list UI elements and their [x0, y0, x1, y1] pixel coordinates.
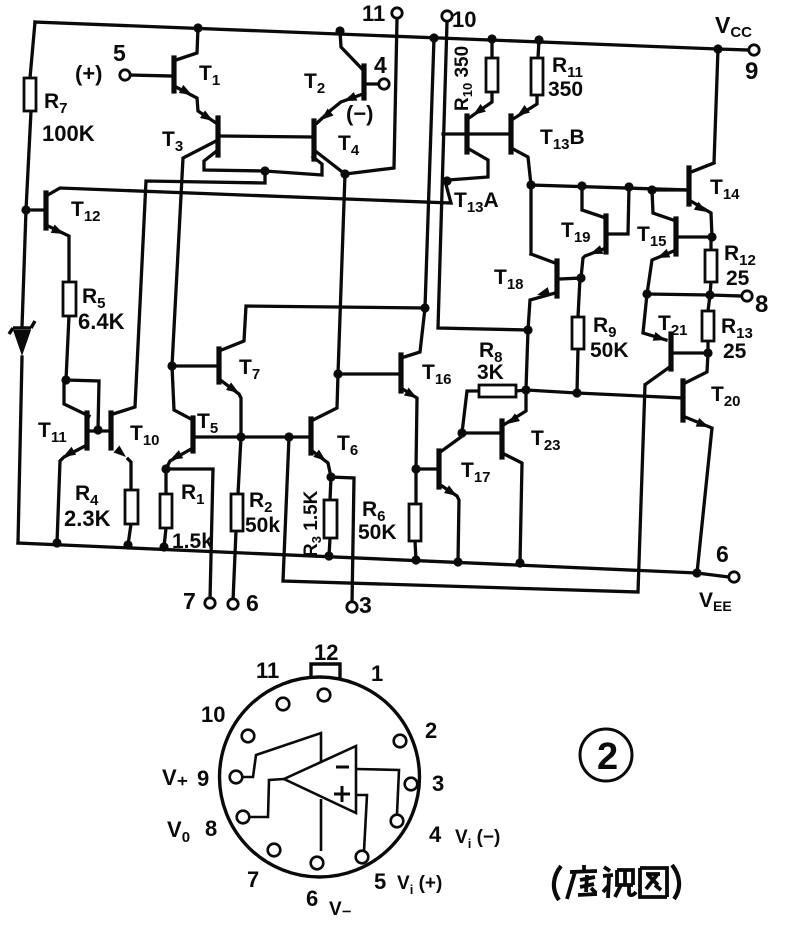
wire T17 base: [416, 467, 437, 470]
package pin circle 7: [268, 844, 281, 857]
package pin circle 4: [391, 815, 404, 828]
node VCC junction: [713, 44, 722, 53]
caption (bottom view) in Chinese, hand-drawn strokes: [554, 865, 679, 900]
svg-text:3K: 3K: [477, 361, 504, 384]
wire pin5 noninverting: [356, 795, 367, 851]
wire R2 bottom to pin 6: [233, 531, 236, 601]
wire R10 stub top: [490, 39, 493, 58]
node T2 collector rail: [335, 26, 344, 35]
package pin circle 9: [230, 771, 243, 784]
wire T23 base: [462, 431, 500, 434]
transistor T13A: [464, 116, 469, 152]
arrow T1 emitter: [179, 85, 194, 99]
arrow T23 emitter into bar: [504, 413, 519, 428]
svg-text:50k: 50k: [245, 514, 280, 537]
resistor R7: [24, 78, 36, 111]
wire T2 emitter to T4: [317, 94, 363, 123]
wire T21 emitter from pin8 node: [643, 294, 666, 340]
resistor R13: [702, 311, 714, 341]
node R13 T21 base: [703, 348, 712, 357]
svg-text:2.3K: 2.3K: [64, 506, 111, 531]
wire T5 T6 base line: [195, 435, 310, 438]
node T19 base bus: [624, 182, 633, 191]
wire T2 base from pin4: [366, 82, 379, 85]
wire R8 right stub: [516, 390, 526, 391]
wire T10 emitter to R4: [128, 459, 131, 545]
transistor T7: [216, 349, 221, 382]
hanzi shi (view): [603, 867, 636, 898]
resistor R1: [160, 494, 172, 528]
svg-text:8: 8: [205, 816, 217, 841]
wire T21 base: [673, 351, 708, 354]
node T3/T4 emitters pin11: [340, 169, 349, 178]
terminal pin 6 bottom: [228, 599, 238, 609]
package pin circle 6: [311, 857, 324, 870]
node R8 right: [521, 385, 530, 394]
terminal pin 10: [442, 11, 452, 21]
node rail T11: [52, 538, 61, 547]
svg-text:6: 6: [246, 590, 259, 616]
arrow T18 emitter: [536, 287, 551, 299]
node T15 collector bus: [647, 185, 656, 194]
wire T3 loop to center node: [204, 150, 265, 171]
transistor T19: [603, 216, 608, 252]
wire T7 collector up and over to vertical 1: [219, 306, 425, 351]
wire T5 emitter diagonal: [166, 448, 193, 469]
node T23 base T17 collector: [457, 428, 466, 437]
terminal pin 3: [347, 602, 357, 612]
node pin8 R12 R13: [705, 290, 714, 299]
wire T16 base: [338, 372, 399, 375]
wire T13A collector elbow to bias node: [448, 149, 488, 180]
wire VCC vertical to T14: [691, 49, 718, 172]
plus sign: [334, 786, 350, 802]
wire T11 emitter to rail: [57, 445, 87, 543]
package pin circle 8: [237, 811, 250, 824]
arrow T12 emitter: [51, 225, 66, 239]
svg-text:V₊: V₊: [162, 765, 188, 790]
wire T18 collector diagonal: [531, 254, 555, 263]
package pin circle 10: [242, 730, 255, 743]
resistor R8: [479, 385, 516, 397]
terminal pin 8: [742, 291, 752, 301]
svg-text:R10 350: R10 350: [452, 46, 475, 111]
wire T15 collector up to bus: [652, 190, 676, 221]
svg-text:10: 10: [201, 702, 225, 727]
wire T12 base: [26, 208, 44, 211]
resistor R10: [486, 58, 498, 92]
wire T1 base from pin5: [130, 75, 172, 76]
resistor R12: [705, 250, 717, 282]
node rail T23: [515, 558, 524, 567]
arrow T2 emitter: [342, 92, 357, 105]
svg-text:8: 8: [755, 291, 768, 318]
wire T7 base to T3 collector line: [172, 364, 217, 367]
wire R8 node to T20 base: [526, 390, 683, 398]
node T7 collector vertical1: [420, 303, 429, 312]
svg-text:25: 25: [726, 267, 750, 290]
wire T4 second diagonal to emitter-node dot: [314, 150, 345, 174]
svg-text:12: 12: [314, 640, 338, 665]
arrow into T3 emitter: [200, 110, 215, 125]
transistor T3: [215, 118, 220, 155]
wire base bus T13B to T14: [531, 185, 689, 190]
arrow T21 emitter into bar: [653, 332, 668, 344]
resistor R6: [409, 504, 421, 541]
wire pin8 to output apex: [249, 779, 284, 817]
arrow T13A emitter: [470, 104, 486, 119]
wire left border vertical: [22, 22, 35, 327]
svg-text:2: 2: [597, 736, 618, 778]
wire base line drop under rail to T21 collector: [283, 385, 645, 592]
node T5 base R2: [236, 432, 245, 441]
package pin circle 2: [394, 735, 407, 748]
node R10 rail: [487, 34, 496, 43]
transistor T17: [436, 451, 441, 487]
resistor R9: [572, 317, 584, 349]
svg-text:7: 7: [247, 867, 259, 892]
wire T18 emitter to node: [528, 293, 555, 330]
wire R5 bottom node to T11/T10 bases: [66, 380, 99, 430]
minus sign: [336, 766, 349, 769]
svg-text:50K: 50K: [358, 521, 397, 544]
terminal pin 5: [120, 70, 130, 80]
svg-text:5: 5: [374, 869, 386, 894]
package pin circle 1: [318, 689, 331, 702]
transistor T20: [680, 381, 685, 420]
wire R12 stubs: [710, 237, 711, 295]
ground? none : bottom VEE rail: [18, 543, 729, 577]
node T16 base: [333, 369, 342, 378]
wire T19 emitter down to R9 node: [581, 248, 606, 278]
wire T16 emitter chain to R6: [401, 388, 417, 560]
arrow T15 emitter: [655, 249, 670, 262]
node rail R4: [123, 540, 132, 549]
node rail R3: [324, 551, 333, 560]
wire T19 collector up to bus: [582, 186, 606, 218]
arrow T11 emitter: [61, 447, 76, 461]
transistor T13B: [508, 116, 513, 152]
transistor T16: [398, 355, 403, 391]
arrow T6 emitter: [313, 450, 329, 465]
terminal pin 6 VEE: [729, 572, 739, 582]
svg-text:11: 11: [256, 658, 279, 683]
package can circle: [220, 677, 420, 877]
svg-text:3: 3: [359, 592, 372, 618]
wire T18 emitter node down to R8 right node: [526, 330, 528, 389]
svg-text:6.4K: 6.4K: [78, 309, 125, 334]
wire T3 collector drop to T5 collector: [172, 140, 218, 419]
svg-text:350: 350: [548, 78, 583, 101]
wire T14 base bus end: [652, 188, 687, 191]
wire T2 collector to rail: [340, 31, 363, 70]
svg-text:4: 4: [374, 52, 387, 78]
arrow T7 emitter: [226, 382, 241, 397]
arrow T10 emitter: [113, 445, 128, 460]
transistor T6: [308, 419, 313, 453]
node T18 emitter pin10: [523, 325, 532, 334]
node T14 emitter R12: [707, 232, 716, 241]
terminal pin 9 VCC: [749, 45, 759, 55]
node R9 bottom: [572, 388, 581, 397]
node T7 base T3 collector: [167, 361, 176, 370]
wire T15 base to R12 node: [678, 235, 711, 238]
wire R11 stub top: [538, 40, 539, 58]
svg-text:Vi (+): Vi (+): [397, 873, 442, 897]
wire R2 top from base line: [238, 437, 241, 494]
wire pin6 V-: [320, 799, 323, 851]
arrow T17 emitter: [444, 485, 459, 500]
figure number 2 circled: [580, 729, 632, 781]
resistor R5: [63, 282, 76, 316]
svg-text:2: 2: [425, 718, 437, 743]
wire T6 emitter node down R3: [329, 477, 331, 556]
wire T21 collector diagonal: [646, 366, 671, 384]
wire T13A base to T13B base: [467, 132, 509, 135]
node bias T13A collector: [442, 176, 451, 185]
transistor T21: [668, 334, 673, 369]
arrow into T4 emitter: [318, 108, 333, 123]
node rail T17: [453, 557, 462, 566]
arrow T19 emitter: [588, 245, 603, 258]
wire T23 collector to rail: [502, 453, 522, 563]
svg-text:100K: 100K: [42, 121, 95, 146]
transistor T14: [686, 168, 691, 204]
hanzi di (bottom): [567, 865, 597, 899]
transistor T23: [499, 421, 504, 457]
wire R9 stubs: [577, 278, 580, 393]
transistor T15: [673, 219, 678, 254]
wire pin11 drop to T3/T4 emitter node: [345, 19, 397, 174]
svg-text:50K: 50K: [590, 339, 629, 362]
node vertical1 rail: [429, 33, 438, 42]
arrow T5 emitter: [168, 450, 183, 464]
svg-text:5: 5: [113, 40, 126, 66]
terminal pin 7: [205, 598, 215, 608]
wire pin10 long drop to R8 node: [438, 22, 528, 330]
arrow T13B emitter: [514, 105, 530, 120]
wire T6 emitter diagonal: [311, 450, 331, 477]
wire T19 base up to bus: [606, 187, 629, 234]
wire bias line T12 collector to T13A: [46, 181, 451, 203]
package pin circle 5: [356, 851, 369, 864]
transistor T18: [554, 261, 559, 296]
wire T18 base to R9 node: [559, 278, 581, 279]
wire rail drop (vertical 1) to T16 collector: [401, 38, 434, 358]
node T11 T10 bases: [93, 425, 102, 434]
wire T5 emitter node to pin7: [166, 469, 213, 600]
svg-text:11: 11: [362, 1, 385, 26]
svg-text:9: 9: [197, 766, 209, 791]
svg-text:7: 7: [183, 588, 196, 614]
wire T20 collector up to R13 node: [685, 353, 708, 383]
wire T1 emitter to T3: [176, 87, 216, 123]
wire top VCC rail: [35, 22, 748, 50]
svg-text:6: 6: [306, 886, 318, 911]
svg-text:V₋: V₋: [329, 899, 352, 920]
wire T7 emitter down to base line: [219, 379, 241, 437]
wire T23 emitter from R8 node: [505, 390, 526, 424]
wire T13B collector elbow: [513, 149, 531, 185]
arrow T16 emitter: [404, 388, 419, 402]
arrow T20 emitter: [696, 418, 711, 431]
node T19 collector bus: [577, 181, 586, 190]
resistor R3: [324, 500, 337, 538]
svg-text:1.5k: 1.5k: [172, 530, 213, 553]
wire T3 base to T4 base: [220, 136, 312, 137]
svg-text:(+): (+): [75, 61, 103, 86]
node T13B collector bus: [526, 180, 535, 189]
wire R5 bottom: [66, 316, 69, 380]
wire T15 emitter down to pin8 line: [647, 250, 676, 294]
wire R10 bottom to T13A emitter: [469, 92, 492, 118]
svg-text:1: 1: [371, 661, 383, 686]
wire T14 emitter to R12 node: [689, 200, 712, 237]
transistor T2: [361, 66, 366, 98]
package pin circle 3: [405, 778, 418, 791]
wire T11 collector up to R5 node: [64, 380, 89, 416]
wire R11 bottom to T13B emitter: [513, 95, 537, 119]
wire T17 emitter to rail: [439, 484, 459, 562]
wire T6 emitter node to pin3: [331, 477, 354, 605]
svg-text:10: 10: [452, 7, 476, 32]
node rail R6: [411, 555, 420, 564]
emitter arrows: [51, 85, 711, 500]
transistor T1: [171, 58, 176, 91]
wire T12 emitter to R5: [48, 226, 69, 282]
package pin circle 11: [277, 698, 290, 711]
wire center mirror node elbow to T10 collector: [113, 171, 265, 414]
transistor T10: [108, 413, 113, 448]
arrow T14 emitter: [694, 202, 709, 216]
resistor R4: [125, 490, 138, 524]
terminal pin 4: [379, 79, 389, 89]
svg-text:3: 3: [432, 771, 444, 796]
svg-text:Vi (−): Vi (−): [455, 827, 500, 851]
hanzi tu (figure): [640, 868, 667, 897]
svg-text:4: 4: [429, 822, 442, 847]
node rail T20: [692, 568, 701, 577]
op-amp triangle: [284, 746, 356, 813]
bracket left: [554, 866, 561, 900]
wire pin9 flag: [242, 733, 321, 777]
wire T11 T10 base tie: [89, 429, 109, 432]
node R11 rail: [534, 35, 543, 44]
zener diode on left border: [9, 321, 35, 356]
transistor T11: [84, 413, 89, 448]
wire pin4 inverting: [356, 769, 399, 814]
node T6 base drop: [284, 432, 293, 441]
svg-text:25: 25: [723, 340, 747, 363]
transistor T4: [311, 121, 316, 159]
wire R13 stubs: [708, 295, 710, 353]
transistor T5: [190, 418, 195, 451]
node pin8 left: [642, 289, 651, 298]
terminal pin 11: [392, 8, 402, 18]
svg-text:(−): (−): [346, 101, 374, 126]
wire pin 8 line: [647, 294, 741, 296]
wire T4 loop to center node: [265, 157, 322, 175]
wire T17 collector node up to R8 left: [439, 391, 479, 453]
bracket right: [672, 865, 679, 899]
wire T4 collector drop to T16 base node: [338, 174, 345, 374]
resistor R11: [531, 58, 543, 95]
resistor R2: [231, 494, 243, 531]
wire T13B collector drop to T18 collector: [529, 185, 532, 254]
node T1 collector rail: [193, 23, 202, 32]
wire T20 emitter to rail: [685, 417, 712, 573]
package tab pin12: [311, 664, 340, 678]
node rail R1: [159, 542, 168, 551]
svg-text:9: 9: [745, 58, 758, 85]
node T18 base R9: [576, 273, 585, 282]
svg-text:6: 6: [716, 541, 729, 567]
node T6 emitter R3: [326, 472, 335, 481]
svg-text:R3 1.5K: R3 1.5K: [301, 490, 324, 557]
node T16 emitter R6: [411, 464, 420, 473]
wire T14 collector: [691, 163, 714, 172]
node T5 emitter R1: [161, 464, 170, 473]
wire left border lower (below zener): [18, 357, 22, 543]
node R5 bottom: [61, 375, 70, 384]
node center mirror: [260, 166, 269, 175]
wire T1 collector to rail: [176, 28, 198, 60]
package bottom-view diagram: [220, 664, 420, 877]
wire R1 stubs: [164, 469, 166, 547]
transistor T12: [43, 193, 48, 228]
wire T6 collector diagonal: [311, 374, 338, 421]
node T12 base: [21, 205, 30, 214]
wire T13A base to pin10 line: [443, 132, 465, 135]
